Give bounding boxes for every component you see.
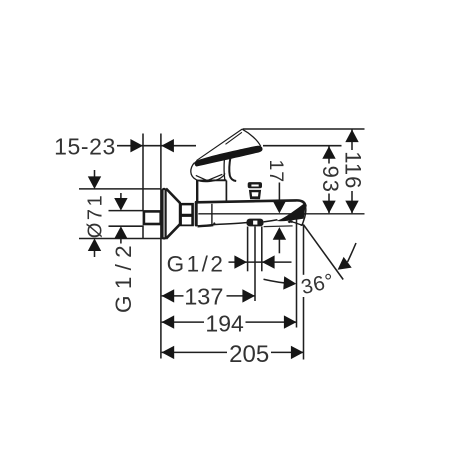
spout tip right edge — [302, 207, 306, 226]
arrow 205 left — [162, 346, 175, 359]
svg-text:194: 194 — [205, 310, 244, 336]
aerator bottom extension line — [264, 225, 293, 228]
handle dome bottom edge — [196, 179, 226, 182]
handle dome fold — [196, 174, 223, 180]
body bottom edge — [198, 225, 214, 226]
wire 116 dim tails — [351, 130, 353, 151]
arrow 137 right — [242, 289, 255, 302]
cartridge block right edge — [225, 181, 227, 202]
body top edge — [197, 200, 306, 206]
arrow 205 right — [291, 346, 304, 359]
spout underside left — [214, 223, 247, 225]
handle dome — [191, 163, 225, 182]
spout tip underside curl — [288, 222, 292, 223]
arrow G1/2 outlet right — [234, 255, 247, 268]
arrow G1/2 left down — [114, 198, 127, 211]
wire 194 dim line — [162, 321, 204, 323]
arrow 17 down — [273, 201, 286, 214]
wire 36 degree arc right — [348, 243, 357, 262]
svg-text:G1/2: G1/2 — [111, 239, 136, 313]
body bottom lip — [213, 223, 215, 226]
arrow 36 arc to vertical — [283, 276, 297, 290]
spout underside right of aerator — [264, 220, 278, 222]
wire G1/2 left dim tails — [120, 193, 122, 204]
wire escutcheon face extension line — [160, 134, 162, 359]
svg-text:Ø71: Ø71 — [84, 193, 106, 239]
wire diam71 dim tails — [94, 170, 96, 182]
wire pipe top G1/2 — [109, 210, 144, 212]
wire G1/2 outlet dim line — [229, 261, 292, 263]
wire top reference line 116 — [243, 128, 365, 130]
lever handle band — [195, 146, 263, 167]
spout outlet face crescent — [277, 203, 306, 222]
wire aerator left extension — [247, 227, 249, 272]
arrow 17 up — [273, 227, 286, 240]
lever neck right edge — [229, 156, 236, 181]
arrow G1/2 outlet left — [262, 255, 275, 268]
wire 36 degree diagonal — [304, 225, 344, 280]
wire 93 dim tails — [328, 146, 330, 163]
wire wall line — [142, 134, 144, 211]
svg-text:205: 205 — [229, 341, 269, 368]
arrow G1/2 left up — [114, 226, 127, 239]
arrow 15-23 right — [130, 139, 143, 152]
wire pipe bottom G1/2 — [109, 225, 144, 227]
wire 17 dim upper — [278, 183, 280, 207]
arrow 194 left — [162, 315, 175, 328]
escutcheon cone top — [166, 189, 180, 203]
arrow 116 up — [345, 130, 358, 143]
escutcheon cone right edge — [179, 202, 181, 225]
escutcheon flange rim — [163, 189, 166, 239]
body end cap — [195, 201, 198, 227]
wire 205 extension line — [303, 225, 305, 275]
lever top edge line — [196, 129, 242, 161]
wire 194 extension line — [296, 219, 298, 327]
wire 137 dim line — [162, 295, 184, 297]
wire 36 degree arc left — [264, 279, 293, 283]
cartridge ring line — [211, 204, 213, 225]
cartridge block left edge — [196, 180, 198, 202]
svg-text:116: 116 — [341, 151, 366, 189]
arrow 116 down — [345, 201, 358, 214]
spout tip underside — [292, 222, 302, 225]
aerator body — [246, 219, 263, 227]
cartridge block top edge — [197, 180, 227, 182]
escutcheon cone bottom — [166, 224, 180, 238]
lever end face — [242, 129, 261, 146]
wire centerline spout axis — [198, 213, 364, 215]
arrow 93 up — [322, 146, 335, 159]
wire diam71 bottom reference — [79, 238, 166, 240]
arrow 137 left — [162, 289, 175, 302]
svg-text:137: 137 — [184, 283, 223, 309]
wire aerator right extension — [261, 227, 263, 272]
svg-text:17: 17 — [265, 160, 287, 183]
faucet body drawing — [144, 129, 306, 239]
arrow diam71 up — [88, 238, 101, 251]
wire aerator center extension — [254, 227, 256, 302]
arrow 36 arc to diagonal — [334, 257, 352, 275]
s-union square nut — [144, 211, 161, 224]
diverter knob cap — [248, 182, 262, 188]
arrow 15-23 left — [161, 139, 174, 152]
wire reference line 93 / 15-23 dim line — [117, 145, 143, 147]
svg-text:93: 93 — [318, 166, 343, 194]
diverter knob base — [249, 190, 261, 199]
arrow 194 right — [284, 315, 297, 328]
svg-text:G1/2: G1/2 — [167, 252, 226, 277]
wire 205 dim line — [162, 351, 227, 353]
arrow diam71 down — [88, 176, 101, 189]
wire diam71 top reference — [79, 188, 162, 190]
wire 17 dim lower — [278, 233, 280, 253]
lever neck left edge — [223, 159, 226, 180]
svg-text:15-23: 15-23 — [54, 134, 116, 160]
arrow 93 down — [322, 201, 335, 214]
lever inner edge line — [226, 132, 242, 144]
union nut block — [180, 203, 194, 226]
